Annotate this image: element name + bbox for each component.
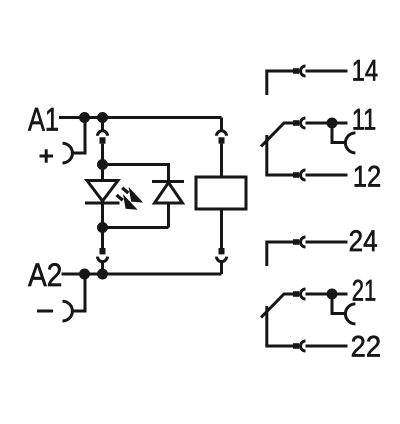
- contact arm (bottom changeover): [261, 294, 293, 318]
- wire coil feed down: [220, 118, 223, 131]
- wire to terminal 14: [306, 70, 348, 73]
- svg-text:24: 24: [349, 225, 378, 258]
- wire to terminal 12: [306, 174, 348, 177]
- wire LED bottom node down: [101, 228, 104, 249]
- wire to terminal 24: [306, 241, 348, 244]
- connector plug square (LED branch top): [100, 137, 106, 143]
- svg-text:A2: A2: [28, 257, 62, 293]
- connector plug square (12): [293, 172, 299, 178]
- wire bottom branch from diode: [103, 226, 169, 229]
- wire clamp A1 to rail: [72, 118, 85, 154]
- wire connector to LED node: [101, 144, 104, 165]
- diode D2 cathode bar: [152, 180, 184, 183]
- LED D1 triangle: [87, 181, 118, 202]
- connector socket arc (21): [301, 289, 306, 299]
- junction dot A2-LED branch: [97, 269, 108, 280]
- wire connector to A2 rail: [101, 261, 104, 274]
- connector socket arc (LED branch bottom): [98, 257, 108, 262]
- wire connector to A2 rail right end: [220, 261, 223, 274]
- svg-text:14: 14: [352, 55, 379, 88]
- contact 14 fixed stub: [267, 71, 293, 95]
- wire clamp A2 to rail: [72, 274, 85, 311]
- wire coil bottom: [220, 209, 223, 248]
- contact pole vertical (bottom): [267, 306, 293, 346]
- connector socket arc (22): [301, 341, 306, 351]
- LED D1 cathode bar: [85, 202, 120, 205]
- wire LED node down: [101, 165, 104, 181]
- junction dot 11: [327, 118, 338, 129]
- junction node LED bottom: [97, 222, 108, 233]
- plus sign: [40, 149, 54, 163]
- wire to terminal 11: [306, 122, 348, 125]
- connector socket arc (12): [301, 170, 306, 180]
- svg-text:11: 11: [352, 104, 377, 137]
- wire to terminal 22: [306, 345, 348, 348]
- clamp terminal 21: [345, 304, 355, 324]
- contact 24 fixed stub: [267, 242, 293, 266]
- LED arrow 2: [116, 194, 138, 210]
- connector plug square (coil top): [219, 137, 225, 143]
- wire A1 rail: [59, 116, 222, 119]
- clamp terminal A1: [63, 143, 73, 163]
- wire LED to bottom node: [101, 203, 104, 228]
- connector plug square (11): [293, 120, 299, 126]
- connector socket arc (24): [301, 237, 306, 247]
- wire to terminal 21: [306, 293, 348, 296]
- svg-text:A1: A1: [28, 101, 59, 137]
- connector socket arc (11): [301, 118, 306, 128]
- connector socket arc (14): [301, 66, 306, 76]
- junction node LED top: [97, 159, 108, 170]
- wire diode bottom: [167, 203, 170, 228]
- svg-text:21: 21: [352, 275, 377, 308]
- clamp terminal A2: [63, 301, 73, 321]
- junction dot A2-clamp: [79, 269, 90, 280]
- junction dot A1-clamp: [79, 112, 90, 123]
- wire connector to coil: [220, 144, 223, 177]
- junction dot 21: [327, 289, 338, 300]
- connector plug square (14): [293, 68, 299, 74]
- connector socket arc (coil top): [217, 131, 227, 136]
- connector socket arc (LED branch top): [98, 131, 108, 136]
- clamp terminal 11: [345, 133, 355, 153]
- wire branch to diode top: [103, 165, 169, 181]
- contact arm (top changeover): [261, 123, 293, 147]
- connector plug square (24): [293, 239, 299, 245]
- junction dot A1-LED branch: [97, 112, 108, 123]
- LED arrow 1: [121, 187, 143, 203]
- minus sign: [37, 310, 53, 313]
- wire 21 to clamp: [332, 294, 346, 314]
- svg-text:22: 22: [351, 331, 382, 364]
- diode D2 triangle: [155, 183, 183, 204]
- connector socket arc (coil bottom): [217, 257, 227, 262]
- connector plug square (coil bottom): [219, 248, 225, 254]
- connector plug square (21): [293, 291, 299, 297]
- connector plug square (LED branch bottom): [100, 248, 106, 254]
- wire A2 rail: [62, 273, 222, 276]
- relay coil K1: [196, 177, 246, 209]
- connector plug square (22): [293, 343, 299, 349]
- svg-text:12: 12: [353, 160, 382, 193]
- wire 11 to clamp: [332, 123, 346, 143]
- wire A1 dot down: [101, 118, 104, 131]
- contact pole vertical (top): [267, 135, 293, 175]
